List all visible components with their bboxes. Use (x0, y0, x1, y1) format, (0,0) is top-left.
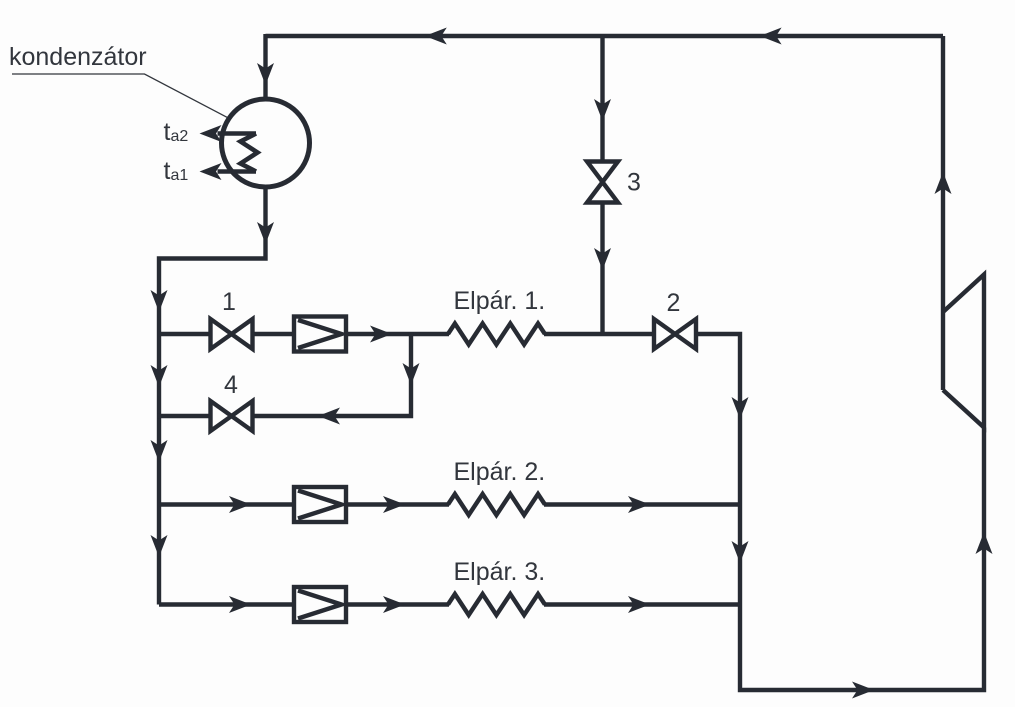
valve V2 (horizontal bowtie) (654, 319, 696, 349)
wire expansion branch upper (top header to valve 3) (600, 34, 604, 162)
wire row3 evaporator3 to collector (544, 602, 740, 606)
wire row1 valve2 to right collector, collector down, bottom run, suction riser (696, 334, 984, 690)
wire top header (compressor discharge to condenser) (266, 34, 944, 38)
wire row2 pump-to-evaporator2 segment (346, 502, 449, 506)
wire row3 pump-to-evaporator3 segment (346, 602, 449, 606)
wire expansion branch lower (valve 3 to row1) (600, 202, 604, 334)
arrow row1 after pump right (370, 326, 392, 343)
valve V3 (vertical bowtie) (587, 162, 618, 203)
condenser circle (222, 99, 310, 187)
valve V4 (horizontal bowtie) (211, 401, 253, 431)
arrow row2 outlet right (628, 496, 650, 513)
pump/distributor P3 triangle (298, 591, 342, 619)
arrow left header down no.1 (151, 290, 168, 312)
wire row4 valve4 to left header (157, 414, 210, 418)
wire row1 evaporator1-to-valve2 segment (544, 332, 654, 336)
svg-text:Elpár. 3.: Elpár. 3. (454, 558, 546, 586)
arrow ta2 air out left (200, 125, 222, 142)
wire row1 pump-to-evaporator1 segment (node at x=411) (346, 332, 449, 336)
evaporator Elpar2 zigzag (448, 494, 545, 515)
svg-text:1: 1 (222, 288, 236, 316)
wire row2 evaporator2 to collector (544, 502, 740, 506)
arrow row4 return left (318, 408, 340, 425)
wire condenser inlet drop (263, 34, 267, 100)
condenser coil ta2 outlet line (218, 131, 257, 136)
arrow expansion branch down no.2 (594, 248, 611, 270)
pump/distributor P1 rectangle (294, 317, 346, 352)
svg-text:kondenzátor: kondenzátor (9, 43, 147, 71)
arrow row3 inlet right (229, 596, 251, 613)
pump/distributor P1 triangle (298, 320, 342, 348)
leader line from kondenzator label to condenser (12, 74, 227, 117)
evaporator Elpar3 zigzag (448, 594, 545, 615)
arrow discharge riser up (935, 172, 952, 194)
wire row1 left segment (159, 332, 210, 336)
arrow collector down no.1 (732, 397, 749, 419)
arrow left header down no.4 (151, 535, 168, 557)
arrow top header left no.1 (425, 28, 447, 45)
wire row2 left segment (159, 502, 295, 506)
wire compressor discharge riser (941, 36, 945, 390)
arrow condenser inlet down (257, 63, 274, 85)
arrow condenser outlet down (257, 222, 274, 244)
arrow expansion branch down no.1 (594, 99, 611, 121)
svg-text:4: 4 (224, 371, 238, 399)
compressor trapezoid body (943, 275, 984, 428)
pump/distributor P2 rectangle (294, 487, 346, 522)
wire row3 left segment (159, 602, 295, 606)
svg-text:3: 3 (627, 169, 641, 197)
arrow row2 after pump right (383, 496, 405, 513)
svg-text:2: 2 (667, 289, 681, 317)
wire bypass drop from node (411,334) down to row4 (253, 332, 411, 416)
pump/distributor P2 triangle (298, 491, 342, 519)
valve V1 (horizontal bowtie) (211, 319, 253, 349)
arrow row3 outlet right (628, 596, 650, 613)
pump/distributor P3 rectangle (294, 587, 346, 622)
arrow top header left no.2 (760, 28, 782, 45)
wire row1 valve1-to-pump segment (252, 332, 295, 336)
evaporator Elpar1 zigzag (448, 324, 545, 345)
arrow collector down no.2 (732, 541, 749, 563)
svg-text:Elpár. 2.: Elpár. 2. (454, 458, 546, 486)
arrow row2 inlet right (229, 496, 251, 513)
arrow bottom run right (852, 682, 874, 699)
condenser coil zigzag (241, 134, 258, 172)
svg-text:Elpár. 1.: Elpár. 1. (454, 287, 546, 315)
arrow bypass drop down (403, 363, 420, 385)
arrow row3 after pump right (383, 596, 405, 613)
arrow suction riser up (976, 532, 993, 554)
arrow left header down no.2 (151, 365, 168, 387)
arrow ta1 air in left (200, 163, 222, 180)
wire condenser outlet, liquid header corner, left header down (159, 186, 266, 605)
arrow left header down no.3 (151, 440, 168, 462)
condenser coil ta1 inlet line (218, 169, 257, 174)
